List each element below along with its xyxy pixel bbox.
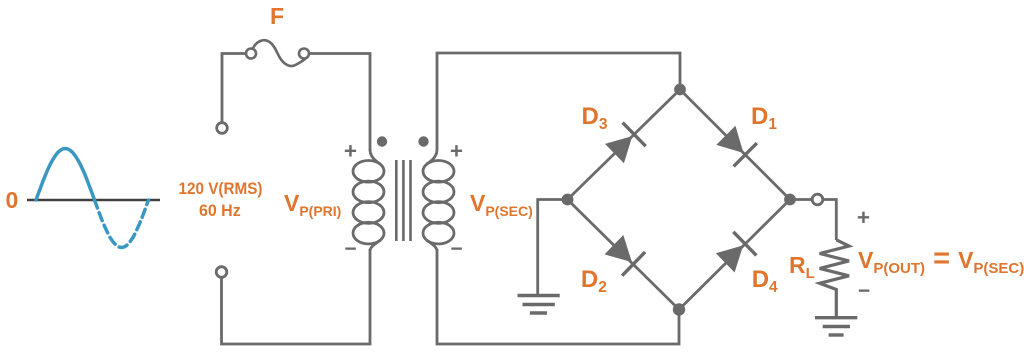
polarity + (secondary top) [450, 139, 463, 164]
transformer phase dot (secondary) [418, 136, 428, 146]
svg-text:60 Hz: 60 Hz [199, 202, 241, 220]
diode D2 [605, 235, 646, 276]
svg-text:VP(PRI): VP(PRI) [284, 190, 341, 219]
svg-text:+: + [450, 139, 463, 164]
label D1 [751, 103, 777, 133]
svg-text:F: F [270, 3, 284, 29]
svg-text:+: + [344, 139, 357, 164]
label F [270, 3, 284, 29]
svg-text:D2: D2 [581, 266, 607, 296]
svg-text:−: − [450, 238, 462, 261]
label RL [789, 252, 815, 282]
wire secondary top to bridge top node [437, 53, 680, 150]
output terminal (open circle) [796, 194, 823, 205]
wire secondary bottom to bridge bottom node [437, 249, 679, 344]
junction node right [784, 194, 796, 206]
svg-text:−: − [858, 280, 870, 303]
transformer phase dot (primary) [377, 136, 387, 146]
wire left node to ground [538, 200, 568, 296]
polarity − (primary bottom) [344, 238, 356, 261]
diode D1 [716, 126, 757, 167]
svg-text:+: + [857, 205, 870, 230]
bridge wire top-right [680, 90, 790, 200]
polarity − (secondary bottom) [450, 238, 462, 261]
source terminal (bottom, open circle) [216, 267, 227, 278]
transformer primary winding [353, 150, 384, 252]
wire from top terminal up to fuse [222, 54, 246, 123]
svg-text:120 V(RMS): 120 V(RMS) [179, 180, 263, 198]
label VP(OUT) = VP(SEC) [858, 242, 1024, 277]
svg-text:0: 0 [6, 187, 19, 213]
sine positive half-cycle (solid) [36, 149, 95, 201]
transformer core [396, 160, 410, 241]
ground (bridge left node) [518, 296, 560, 314]
junction node top [674, 84, 686, 96]
label VP(SEC) at secondary [470, 190, 533, 219]
ground (load) [815, 318, 857, 335]
diode D3 [605, 123, 646, 164]
polarity − (output) [858, 280, 870, 303]
resistor RL [820, 240, 849, 317]
label D2 [581, 266, 607, 296]
value label 120 V(RMS) 60 Hz [179, 180, 263, 220]
svg-text:RL: RL [789, 252, 815, 282]
svg-text:D1: D1 [751, 103, 777, 133]
svg-text:D4: D4 [752, 266, 778, 296]
polarity + (primary top) [344, 139, 357, 164]
diode D4 [716, 232, 757, 273]
transformer secondary winding [423, 150, 454, 252]
junction node left [562, 194, 574, 206]
label D3 [582, 103, 608, 133]
axis line of input sine graph [27, 199, 160, 202]
svg-text:VP(SEC): VP(SEC) [470, 190, 533, 219]
svg-text:−: − [344, 238, 356, 261]
sine negative half-cycle (dashed) [95, 200, 149, 248]
bridge wire bottom-right [679, 200, 790, 310]
node 0 axis label [6, 187, 19, 213]
fuse F [246, 40, 309, 66]
wire output terminal to load resistor [823, 200, 837, 241]
junction node bottom [673, 303, 685, 315]
label D4 [752, 266, 778, 296]
bridge wire left-bottom [568, 200, 680, 310]
svg-text:VP(OUT) = VP(SEC): VP(OUT) = VP(SEC) [858, 242, 1024, 277]
polarity + (output) [857, 205, 870, 230]
source terminal (top, open circle) [217, 123, 228, 134]
svg-text:D3: D3 [582, 103, 608, 133]
label VP(PRI) [284, 190, 341, 219]
wire from bottom terminal along bottom to primary [222, 249, 371, 344]
bridge wire left-top [568, 90, 681, 200]
wire from fuse to transformer primary top [309, 54, 370, 152]
